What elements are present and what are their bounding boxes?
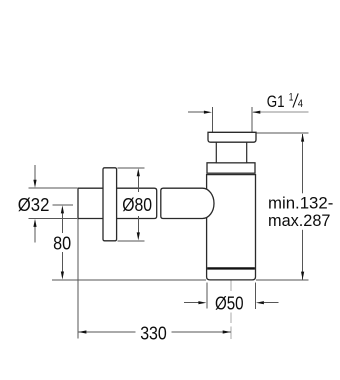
centerline of trap body (dashed, below body) [230, 279, 232, 339]
G1 1/4 dimension right arrow with leader [253, 111, 309, 113]
330 dimension line [78, 331, 231, 333]
extension line: O50 right [254, 283, 256, 310]
inlet pipe segment B with rounded cap into body [161, 188, 214, 218]
label O80 [120, 194, 156, 214]
O32 dimension bottom arrow [34, 225, 36, 243]
svg-text:80: 80 [53, 232, 71, 253]
svg-text:Ø50: Ø50 [215, 293, 244, 314]
label O50 [212, 294, 248, 313]
min-max dimension line with arrows [302, 134, 304, 280]
svg-text:G1: G1 [267, 93, 285, 111]
extension line: pipe left end down to 330 dim [77, 219, 79, 339]
extension line: O32 bottom [29, 218, 78, 220]
O32 dimension top arrow [34, 165, 36, 182]
extension line: G1 1/4 left thread [211, 107, 213, 132]
svg-text:4: 4 [298, 98, 303, 110]
svg-text:max.287: max.287 [268, 211, 331, 230]
G1 1/4 dimension left arrow [188, 111, 205, 113]
trap body cylinder [207, 175, 256, 280]
extension line: bottom datum right of body [256, 279, 308, 281]
O50 dimension left arrow [184, 302, 199, 304]
extension line: top flange to min-max dim [257, 132, 309, 134]
label 80 [50, 233, 75, 252]
label 330 [136, 324, 172, 342]
extension line: bottom datum left of body [52, 279, 206, 281]
extension line: O50 left [206, 283, 208, 309]
svg-text:Ø32: Ø32 [18, 194, 50, 215]
svg-text:min.132-: min.132- [268, 193, 333, 212]
svg-text:330: 330 [140, 323, 167, 344]
label min.132- max.287 [266, 193, 336, 230]
coupling nut on body top [207, 163, 255, 173]
extension line: O80 top [118, 167, 145, 169]
extension line: O80 bottom [118, 240, 145, 242]
80 dimension line upper part with up arrow [61, 208, 63, 233]
wall escutcheon flange O80 [103, 168, 117, 241]
svg-text:Ø80: Ø80 [122, 194, 152, 215]
trap body bottom thick ring [207, 267, 255, 269]
80 dimension centerline tick [53, 204, 73, 206]
svg-text:1: 1 [289, 92, 294, 104]
leader tick right of O32 [52, 204, 57, 206]
O80 dimension line with arrows [137, 172, 139, 192]
inlet pipe segment A (wall side) [78, 188, 157, 218]
label O32 [17, 194, 52, 213]
extension line: G1 1/4 right thread [251, 107, 253, 132]
extension line: O32 top [29, 187, 78, 189]
O50 dimension right arrow [264, 302, 279, 304]
top flange [208, 132, 256, 142]
neck between flange and nut [216, 141, 246, 163]
80 dimension line lower part with down arrow [61, 251, 63, 273]
